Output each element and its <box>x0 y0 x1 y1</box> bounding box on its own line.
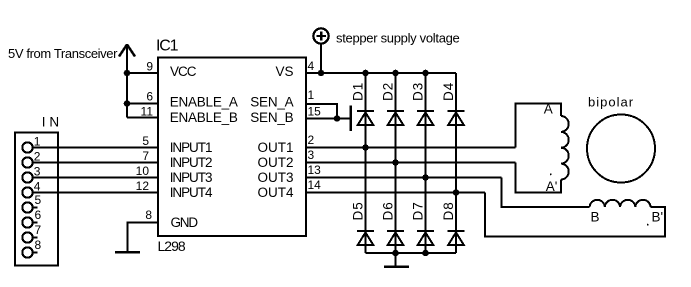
svg-text:3: 3 <box>34 165 41 179</box>
svg-text:9: 9 <box>146 60 153 74</box>
svg-text:OUT4: OUT4 <box>257 185 293 200</box>
svg-text:D4: D4 <box>441 82 456 101</box>
svg-text:INPUT1: INPUT1 <box>170 140 212 155</box>
svg-text:stepper supply voltage: stepper supply voltage <box>336 31 460 46</box>
svg-text:12: 12 <box>136 179 150 193</box>
svg-text:B: B <box>591 210 600 225</box>
svg-text:D6: D6 <box>381 201 396 220</box>
svg-text:SEN_A: SEN_A <box>250 94 293 109</box>
svg-text:6: 6 <box>146 90 153 104</box>
svg-text:5: 5 <box>35 193 42 207</box>
svg-text:4: 4 <box>308 59 315 73</box>
svg-text:10: 10 <box>136 164 150 178</box>
svg-text:15: 15 <box>308 104 322 118</box>
svg-text:1: 1 <box>308 88 315 102</box>
svg-text:A': A' <box>546 179 558 194</box>
svg-text:5V from Transceiver: 5V from Transceiver <box>8 46 118 61</box>
svg-text:INPUT3: INPUT3 <box>170 170 212 185</box>
svg-text:bipolar: bipolar <box>588 95 634 110</box>
svg-text:D3: D3 <box>411 82 426 101</box>
svg-text:IC1: IC1 <box>156 38 179 55</box>
svg-text:OUT2: OUT2 <box>257 155 293 170</box>
svg-text:VS: VS <box>275 64 293 79</box>
svg-text:D5: D5 <box>351 201 366 220</box>
svg-text:INPUT2: INPUT2 <box>170 155 212 170</box>
svg-text:13: 13 <box>308 163 322 177</box>
svg-text:ENABLE_B: ENABLE_B <box>170 110 238 125</box>
svg-text:D7: D7 <box>411 201 426 220</box>
svg-text:VCC: VCC <box>170 64 197 79</box>
svg-text:2: 2 <box>34 150 41 164</box>
svg-text:D8: D8 <box>441 201 456 220</box>
svg-text:1: 1 <box>34 135 41 149</box>
svg-text:6: 6 <box>35 208 42 222</box>
svg-text:INPUT4: INPUT4 <box>170 185 213 200</box>
svg-text:SEN_B: SEN_B <box>250 110 293 125</box>
svg-text:5: 5 <box>142 134 149 148</box>
svg-text:D2: D2 <box>381 82 396 101</box>
svg-text:A: A <box>544 101 553 116</box>
svg-text:4: 4 <box>34 180 41 194</box>
svg-text:3: 3 <box>308 148 315 162</box>
svg-text:7: 7 <box>142 149 149 163</box>
svg-text:B': B' <box>652 210 664 225</box>
svg-text:14: 14 <box>308 178 322 192</box>
svg-text:8: 8 <box>35 238 42 252</box>
svg-text:D1: D1 <box>351 82 366 101</box>
svg-text:2: 2 <box>308 133 315 147</box>
svg-text:8: 8 <box>145 208 152 222</box>
svg-text:11: 11 <box>141 105 154 119</box>
svg-text:GND: GND <box>171 215 199 230</box>
svg-text:ENABLE_A: ENABLE_A <box>170 94 238 109</box>
svg-text:IN: IN <box>42 115 63 130</box>
svg-text:OUT3: OUT3 <box>257 170 293 185</box>
svg-text:L298: L298 <box>158 238 186 254</box>
svg-text:OUT1: OUT1 <box>257 140 293 155</box>
svg-text:7: 7 <box>35 223 42 237</box>
